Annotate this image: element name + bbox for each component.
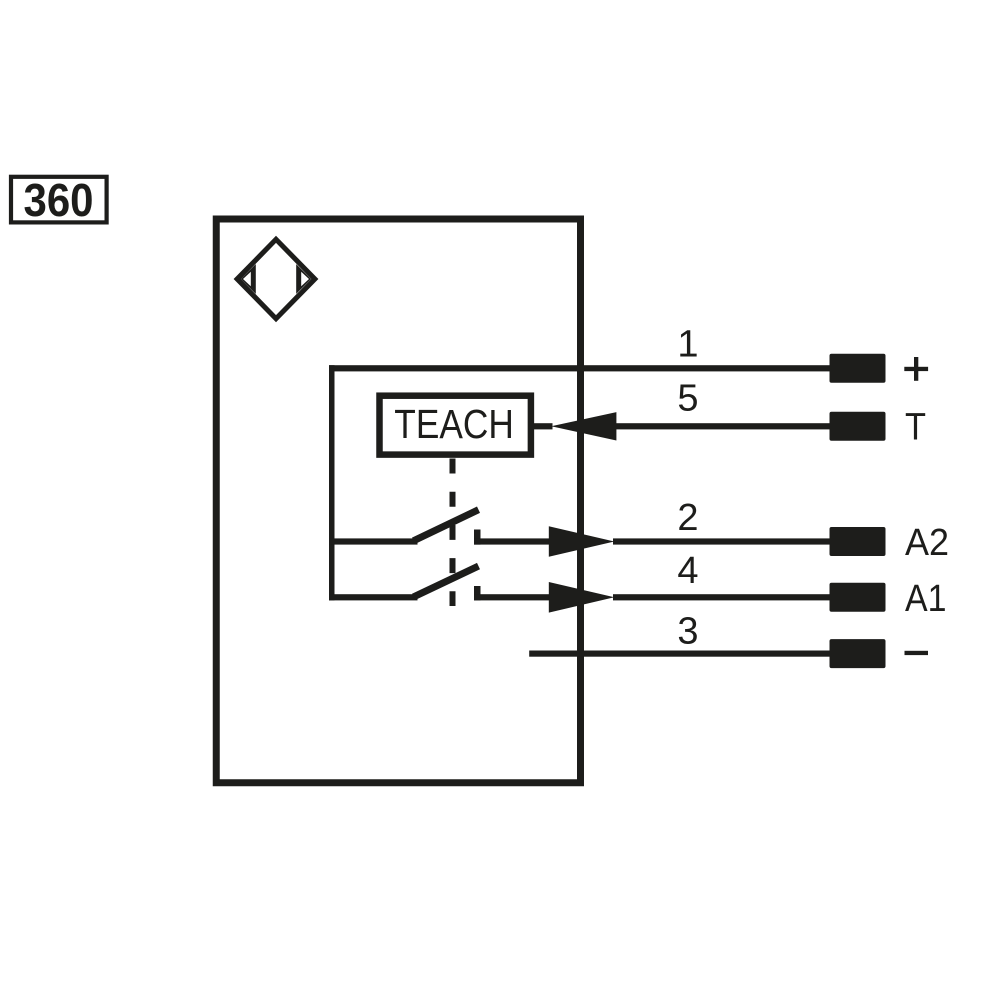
svg-text:2: 2: [677, 497, 698, 539]
wire 4 from switch S2: [474, 594, 550, 600]
svg-text:TEACH: TEACH: [394, 401, 514, 447]
svg-text:4: 4: [677, 550, 698, 592]
terminal pin block A1: [830, 583, 886, 612]
terminal label -: [905, 651, 929, 655]
switch S1 blade wire (left): [329, 538, 418, 544]
sensor logo diamond: [234, 236, 319, 322]
arrowhead on wire 4 (pointing right): [549, 582, 615, 613]
switch S1 fixed contact tick: [474, 530, 481, 545]
TEACH block U2: [380, 396, 531, 455]
svg-text:A1: A1: [905, 578, 947, 620]
terminal pin block -: [830, 639, 886, 668]
switch S2 fixed contact tick: [474, 586, 481, 600]
svg-text:360: 360: [24, 174, 94, 226]
terminal pin block T: [830, 412, 886, 441]
svg-text:3: 3: [677, 611, 698, 653]
sensor body outline U1: [216, 219, 580, 783]
terminal pin block A2: [830, 527, 886, 556]
wire 2 from switch S1: [474, 538, 550, 544]
terminal label +: [904, 357, 928, 381]
dashed actuation link from TEACH to switches: [450, 459, 456, 607]
arrowhead on wire 2 (pointing right): [549, 526, 615, 557]
switch S1 blade (diagonal): [414, 510, 479, 541]
wire 2 horizontal (output A2): [613, 538, 830, 544]
wire 5 horizontal (teach input): [614, 423, 830, 429]
wire 3 horizontal (- supply): [529, 651, 830, 657]
wire 1 horizontal (+ supply): [329, 365, 830, 371]
switch S2 blade wire (left): [329, 594, 418, 600]
figure label 360: [11, 174, 107, 226]
arrowhead on wire 5 (pointing left): [551, 412, 616, 440]
svg-text:1: 1: [677, 324, 698, 366]
svg-text:T: T: [905, 406, 926, 448]
terminal pin block +: [830, 354, 886, 383]
wire internal bus left vertical: [329, 365, 335, 600]
wire 5 stub into TEACH: [532, 423, 553, 429]
svg-text:5: 5: [677, 378, 698, 420]
wire 4 horizontal (output A1): [613, 594, 830, 600]
switch S2 blade (diagonal): [414, 566, 479, 597]
svg-text:A2: A2: [905, 522, 949, 564]
